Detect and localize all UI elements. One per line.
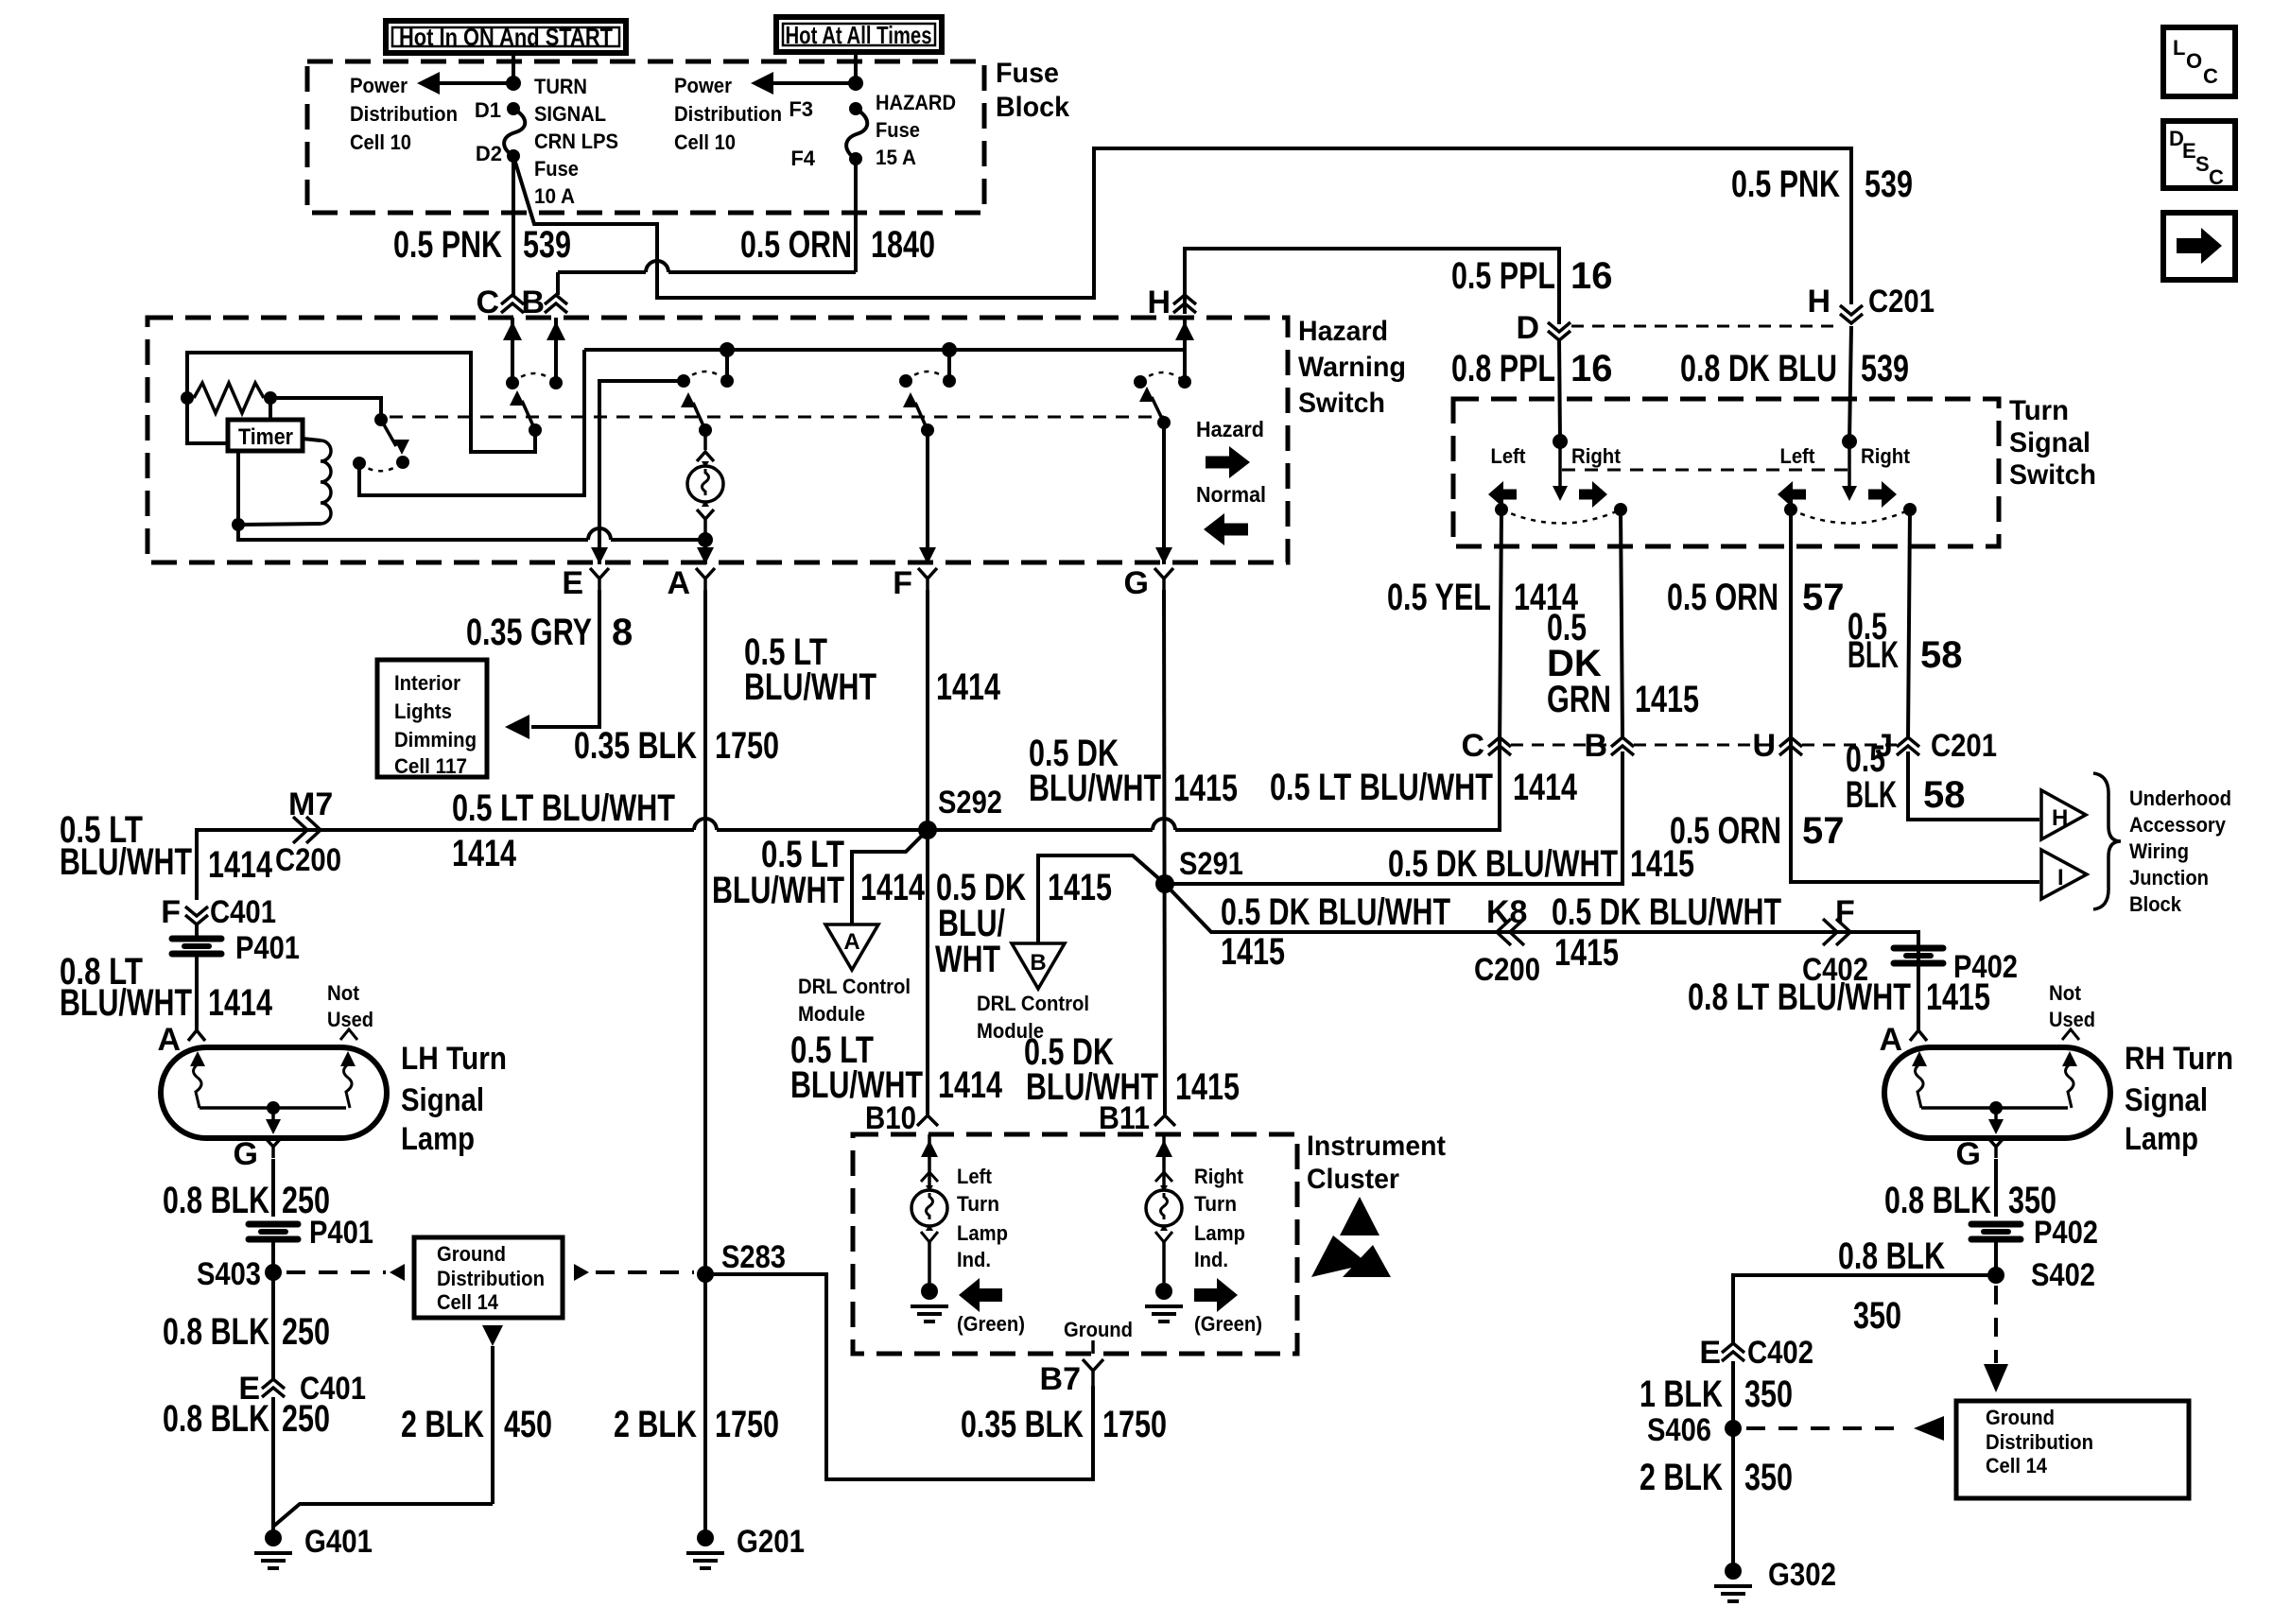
svg-text:WHT: WHT: [935, 939, 1000, 980]
wire: gang G right contact to connector H: [1175, 318, 1194, 382]
ground G302: [1714, 1557, 1836, 1601]
interior lights dimming cell 117 box: [377, 660, 487, 778]
svg-text:LH Turn: LH Turn: [401, 1041, 507, 1077]
svg-text:350: 350: [1744, 1457, 1793, 1498]
flasher switch: fixed contact: [374, 413, 388, 426]
wire: gang G pivot to connector G: [1155, 423, 1172, 564]
svg-text:DRL Control: DRL Control: [798, 975, 911, 998]
wire: ground distribution cell 14 to G401 (2 BLK 450): [274, 1325, 503, 1526]
label F3: [789, 97, 813, 121]
wire: resistor to timer top: [269, 398, 272, 420]
svg-text:Distribution: Distribution: [437, 1267, 545, 1290]
label 0.5 ORN 57 (upper): [1667, 577, 1845, 618]
pilot lamp socket (upper): [697, 430, 714, 461]
svg-text:C: C: [1461, 728, 1484, 764]
svg-text:Fuse: Fuse: [534, 157, 579, 181]
svg-text:1750: 1750: [715, 725, 779, 767]
fuse F: TURN SIGNAL CRN LPS Fuse 10 A: [504, 102, 525, 163]
mechanical linkage dashed line (hazard switch): [390, 416, 1164, 419]
label Power Distribution Cell 10 (left): [350, 74, 458, 154]
svg-text:A: A: [157, 1022, 181, 1058]
svg-text:I: I: [2057, 865, 2064, 890]
wire: gang F pivot to connector F: [919, 430, 936, 564]
svg-text:1415: 1415: [1173, 768, 1238, 809]
svg-text:G401: G401: [304, 1524, 373, 1560]
splice S283: [697, 1239, 786, 1283]
svg-text:F3: F3: [789, 97, 813, 121]
svg-text:Accessory: Accessory: [2129, 813, 2227, 837]
left turn lamp socket + ground: [911, 1232, 948, 1322]
label (Green) left: [957, 1312, 1025, 1336]
LH lamp right bulb terminal: [340, 1051, 356, 1108]
svg-text:1415: 1415: [1175, 1066, 1240, 1108]
node: fuse feed junction (left): [506, 76, 521, 91]
svg-text:0.5 PNK: 0.5 PNK: [393, 224, 502, 266]
hazard gang 0: pivot + arm: [510, 390, 542, 437]
svg-text:0.5 PPL: 0.5 PPL: [1451, 255, 1555, 297]
wire: connector B into hazard switch gang 0 right contact: [547, 318, 565, 383]
svg-text:350: 350: [1744, 1373, 1793, 1415]
svg-text:0.5 LT BLU/WHT: 0.5 LT BLU/WHT: [452, 787, 675, 829]
wire: flasher output to lamp junction, hops over E wire: [238, 525, 705, 540]
svg-text:Block: Block: [996, 92, 1069, 123]
svg-text:2 BLK: 2 BLK: [401, 1404, 484, 1445]
connector B (fuse block to hazard switch): [521, 285, 567, 320]
dashed reference: S406 to ground distribution cell 14: [1746, 1416, 1944, 1441]
svg-text:CRN LPS: CRN LPS: [534, 130, 618, 153]
wire: D to turn signal switch (0.8 PPL 16): [1559, 340, 1560, 441]
svg-text:C201: C201: [1931, 728, 1997, 764]
svg-text:1 BLK: 1 BLK: [1640, 1373, 1723, 1415]
label Fuse Block: [996, 58, 1069, 123]
wire: fuse D2 to connector C (0.5 PNK 539): [512, 156, 515, 295]
svg-text:BLU/WHT: BLU/WHT: [744, 666, 876, 708]
svg-text:B10: B10: [865, 1100, 916, 1136]
inline connector P402 (lower): [1971, 1215, 2098, 1251]
label 0.5 PNK 539 (right): [1731, 164, 1913, 205]
label 0.5 PPL 16: [1451, 255, 1613, 297]
svg-text:Turn: Turn: [957, 1192, 999, 1216]
wire: P401 to S403: [271, 1239, 275, 1272]
turn signal switch dashed box: [1453, 399, 1999, 546]
label 0.5 DK GRN 1415: [1547, 607, 1699, 720]
LH turn signal lamp body: [161, 1047, 387, 1138]
svg-text:H: H: [1807, 284, 1831, 320]
label HAZARD Fuse 15 A: [876, 91, 956, 169]
svg-text:Used: Used: [2049, 1008, 2095, 1031]
connector F C401: [161, 894, 276, 940]
wire: hazard switch common bus: [584, 348, 1186, 352]
wire: E C402 to S406 (1 BLK 350): [1731, 1361, 1735, 1428]
hazard gang 0: contacts + dashed arc: [506, 373, 563, 389]
label 0.5 BLK 58 (lower): [1846, 738, 1966, 816]
label 0.8 BLK 250 (1): [163, 1180, 330, 1221]
svg-text:Right: Right: [1194, 1165, 1244, 1188]
wire: connector A to S283 (0.35 BLK 1750): [703, 590, 707, 1274]
svg-text:Signal: Signal: [2125, 1082, 2208, 1118]
svg-text:Power: Power: [674, 74, 732, 97]
svg-text:Ground: Ground: [1986, 1406, 2055, 1429]
node: bus junction above gang A: [720, 342, 735, 381]
node: timer/coil bottom junction: [232, 518, 245, 531]
DRL control module B triangle: [1012, 943, 1065, 989]
svg-text:1840: 1840: [871, 224, 935, 266]
svg-text:0.8 BLK: 0.8 BLK: [163, 1398, 269, 1440]
svg-text:1414: 1414: [208, 844, 273, 886]
svg-text:K8: K8: [1486, 894, 1527, 930]
LH lamp left bulb terminal: [190, 1051, 205, 1108]
label 0.5 BLK 58 (upper): [1848, 606, 1963, 676]
svg-text:Cell 10: Cell 10: [350, 130, 411, 154]
hazard gang F: contacts + dashed arc: [899, 371, 956, 388]
hazard gang G: contacts + dashed arc: [1134, 372, 1191, 389]
svg-text:1750: 1750: [1102, 1404, 1167, 1445]
connector H (hazard switch top): [1147, 285, 1196, 320]
connector A (RH lamp): [1879, 1022, 1927, 1058]
svg-text:Signal: Signal: [401, 1082, 484, 1118]
node: lamp output junction: [698, 532, 713, 547]
left turn lamp indicator: [911, 1185, 947, 1231]
connector not used (RH lamp): [2062, 1029, 2079, 1040]
ground G401: [254, 1524, 373, 1568]
svg-text:B7: B7: [1040, 1361, 1081, 1397]
label 0.5 ORN 57 (lower): [1670, 810, 1845, 852]
label Hazard with right arrow: [1196, 417, 1264, 478]
label 0.8 LT BLU/WHT 1415: [1688, 976, 1990, 1018]
instrument cluster dashed box: [853, 1134, 1297, 1354]
svg-text:2 BLK: 2 BLK: [1640, 1457, 1723, 1498]
svg-text:Cluster: Cluster: [1307, 1164, 1399, 1195]
svg-text:B11: B11: [1099, 1100, 1150, 1136]
hazard pilot lamp: [687, 461, 723, 507]
svg-text:15 A: 15 A: [876, 146, 916, 169]
label B11: [1099, 1100, 1150, 1136]
label 0.8 BLK 350 (RH): [1884, 1180, 2056, 1221]
svg-text:Right: Right: [1571, 444, 1622, 468]
label 1 BLK 350: [1640, 1373, 1793, 1415]
wire: left vertical to timer: [187, 398, 228, 443]
label 0.5 YEL 1414: [1387, 577, 1579, 618]
label Right Turn Lamp Ind.: [1194, 1165, 1245, 1271]
svg-text:1414: 1414: [860, 867, 926, 908]
svg-text:D2: D2: [476, 142, 502, 165]
svg-text:B: B: [1030, 950, 1046, 976]
connector B C201: [1584, 728, 1634, 764]
svg-text:1415: 1415: [1048, 867, 1112, 908]
svg-text:Left: Left: [1491, 444, 1527, 468]
svg-text:Hot At All Times: Hot At All Times: [786, 21, 932, 49]
svg-text:F4: F4: [790, 147, 815, 170]
svg-text:S406: S406: [1647, 1412, 1711, 1448]
wire: S406 to G302 (2 BLK 350): [1731, 1428, 1735, 1566]
svg-text:57: 57: [1802, 810, 1845, 852]
svg-text:Fuse: Fuse: [876, 118, 920, 142]
wire: lamp junction to connector A: [697, 540, 714, 564]
connector C C201: [1461, 728, 1511, 764]
splice S292: [918, 785, 1002, 839]
coil (flasher relay): [238, 439, 331, 525]
dashed reference: S403 to ground distribution cell 14: [286, 1264, 405, 1281]
RH lamp left bulb terminal: [1912, 1051, 1927, 1108]
timer box: [228, 420, 303, 451]
svg-text:G: G: [1124, 565, 1149, 601]
label Left Turn Lamp Ind.: [957, 1165, 1008, 1271]
label 0.5 LT BLU/WHT 1414 (B10 wire): [790, 1029, 1003, 1106]
svg-text:S403: S403: [197, 1256, 261, 1292]
wire: connector G to S291 (0.5 DK BLU/WHT 1415): [1164, 590, 1165, 1114]
label Power Distribution Cell 10 (right): [674, 74, 782, 154]
svg-text:C: C: [476, 285, 499, 320]
svg-text:H: H: [2052, 805, 2068, 831]
svg-text:L: L: [2173, 36, 2185, 60]
wire: Hot At All Times feed to fuse F3: [854, 52, 858, 83]
wire: gang2 left contact to C201-U (0.5 ORN 57): [1789, 510, 1793, 752]
hazard gang A: pivot + arm: [681, 392, 712, 437]
label 2 BLK 450: [401, 1404, 552, 1445]
svg-text:Cell 117: Cell 117: [394, 754, 467, 778]
label 0.8 BLK 350 (horizontal): [1838, 1235, 1945, 1337]
wire: gang1 left contact to C201-C (0.5 YEL 1414): [1500, 510, 1501, 752]
right green arrow: [1194, 1278, 1238, 1312]
svg-text:S: S: [2195, 152, 2210, 176]
svg-text:E: E: [2182, 139, 2196, 163]
svg-text:10 A: 10 A: [534, 184, 575, 208]
label Underhood Accessory Wiring Junction Block: [2129, 786, 2231, 916]
wire: S403 to E C401 (0.8 BLK 250): [271, 1272, 275, 1379]
label D2: [476, 142, 502, 165]
label 0.5 LT BLU/WHT 1414 (DRL A wire): [712, 834, 926, 911]
label 0.8 DK BLU 539: [1680, 348, 1909, 389]
svg-text:C: C: [2203, 64, 2218, 88]
svg-text:C401: C401: [210, 894, 276, 930]
svg-text:S291: S291: [1179, 846, 1243, 882]
svg-text:Cell 10: Cell 10: [674, 130, 736, 154]
svg-text:P402: P402: [2034, 1215, 2098, 1251]
svg-text:C402: C402: [1747, 1335, 1813, 1371]
svg-text:0.5 DK BLU/WHT: 0.5 DK BLU/WHT: [1221, 891, 1450, 933]
legend box arrow: [2163, 213, 2235, 280]
svg-text:BLU/WHT: BLU/WHT: [60, 841, 192, 883]
svg-text:Not: Not: [2049, 981, 2082, 1005]
svg-text:BLU/WHT: BLU/WHT: [60, 982, 192, 1024]
node: bus junction above gang F: [942, 342, 957, 381]
wire: S292 to DRL control module A: [852, 830, 928, 924]
connector G (LH lamp): [234, 1136, 283, 1172]
svg-text:S283: S283: [721, 1239, 786, 1275]
svg-text:1414: 1414: [452, 833, 517, 874]
label Not Used (RH): [2049, 981, 2095, 1031]
svg-text:0.5 YEL: 0.5 YEL: [1387, 577, 1491, 618]
svg-text:0.5 LT BLU/WHT: 0.5 LT BLU/WHT: [1270, 767, 1493, 808]
svg-text:Power: Power: [350, 74, 408, 97]
svg-text:Signal: Signal: [2009, 427, 2091, 458]
label 0.5 DK BLU/WHT 1415 (B11 wire): [1024, 1031, 1240, 1108]
svg-text:2 BLK: 2 BLK: [614, 1404, 697, 1445]
label 0.8 PPL 16: [1451, 348, 1613, 389]
hazard gang G: pivot + arm: [1139, 387, 1171, 429]
svg-text:Distribution: Distribution: [1986, 1430, 2093, 1454]
svg-text:G201: G201: [737, 1524, 805, 1560]
splice S402: [1987, 1257, 2095, 1293]
svg-text:539: 539: [1865, 164, 1913, 205]
label 0.35 BLK 1750 (B7): [961, 1404, 1167, 1445]
hazard gang F: pivot + arm: [903, 392, 934, 437]
label 0.5 DK BLU/WHT 1415 (to C201 B): [1388, 843, 1694, 885]
svg-text:57: 57: [1802, 577, 1845, 618]
connector A (hazard switch bottom): [667, 565, 715, 601]
svg-text:P401: P401: [309, 1215, 373, 1251]
wire: B11 into cluster right turn lamp: [1155, 1134, 1172, 1190]
svg-text:D1: D1: [475, 98, 501, 122]
svg-text:0.8 DK BLU: 0.8 DK BLU: [1680, 348, 1837, 389]
ESD symbol: [1311, 1197, 1391, 1277]
label 2 BLK 350: [1640, 1457, 1793, 1498]
label 0.5 LT BLU/WHT 1414 (bus left): [60, 809, 273, 886]
label (Green) right: [1194, 1312, 1262, 1336]
connector K8 C200 (inline <<): [1474, 894, 1540, 988]
label D1: [475, 98, 501, 122]
svg-text:Lights: Lights: [394, 700, 452, 723]
svg-text:TURN: TURN: [534, 75, 587, 98]
connector F C402 (inline >>): [1802, 894, 1868, 988]
svg-text:GRN: GRN: [1547, 679, 1611, 720]
svg-text:1414: 1414: [936, 666, 1001, 708]
svg-text:0.5 PNK: 0.5 PNK: [1731, 164, 1840, 205]
svg-text:0.35 GRY: 0.35 GRY: [466, 612, 592, 653]
RH turn signal lamp body: [1884, 1047, 2110, 1138]
svg-text:A: A: [843, 929, 859, 955]
svg-text:S292: S292: [938, 785, 1002, 821]
wire: cluster ground to B7: [1091, 1340, 1095, 1354]
svg-text:E: E: [1699, 1335, 1721, 1371]
svg-text:350: 350: [1853, 1295, 1901, 1337]
wire: S402 to E C402 (0.8 BLK 350): [1733, 1275, 1996, 1343]
svg-text:250: 250: [282, 1398, 330, 1440]
svg-text:Interior: Interior: [394, 671, 460, 695]
label Normal with left arrow: [1196, 482, 1266, 545]
RH lamp right bulb terminal: [2062, 1051, 2077, 1108]
svg-text:0.8 PPL: 0.8 PPL: [1451, 348, 1555, 389]
flasher switch: moving contacts + dashed arc: [353, 456, 409, 471]
inline connector P401 (upper): [172, 930, 300, 966]
label Turn Signal Switch: [2009, 395, 2096, 491]
svg-text:0.8 BLK: 0.8 BLK: [163, 1180, 269, 1221]
label 0.5 LT BLU/WHT 1414 (bus right): [1270, 767, 1578, 808]
label 0.5 DK BLU/WHT 1415 (DRL B wire): [935, 867, 1112, 980]
svg-text:BLU/WHT: BLU/WHT: [1029, 768, 1161, 809]
hazard gang A: contacts + dashed arc: [677, 371, 734, 388]
wire: connector E to interior lights dimming (0.35 GRY 8): [505, 590, 599, 739]
svg-text:0.8 BLK: 0.8 BLK: [1838, 1235, 1945, 1277]
svg-text:G: G: [234, 1136, 258, 1172]
mechanical linkage dashed (turn signal switch): [1562, 469, 1848, 472]
wire: LH lamp G to P401 (0.8 BLK 250): [271, 1159, 275, 1217]
svg-text:Instrument: Instrument: [1307, 1131, 1446, 1162]
svg-text:Distribution: Distribution: [674, 102, 782, 126]
svg-text:Dimming: Dimming: [394, 728, 477, 752]
svg-text:Timer: Timer: [238, 424, 293, 450]
label 0.8 BLK 250 (2): [163, 1311, 330, 1353]
svg-text:Used: Used: [327, 1008, 373, 1031]
svg-text:M7: M7: [288, 786, 333, 822]
wire: S291 to DRL control module B: [1038, 855, 1165, 943]
svg-text:(Green): (Green): [957, 1312, 1025, 1336]
wire: S292 to B10 (0.5 LT BLU/WHT 1414): [926, 830, 929, 1114]
label 0.5 PNK 539 (left): [393, 224, 571, 266]
right turn lamp socket + ground: [1145, 1232, 1183, 1322]
svg-text:Junction: Junction: [2129, 866, 2209, 890]
svg-text:1415: 1415: [1554, 932, 1619, 974]
svg-text:Block: Block: [2129, 892, 2182, 916]
legend box DESC: [2163, 121, 2235, 189]
svg-text:1415: 1415: [1635, 679, 1699, 720]
svg-text:1414: 1414: [938, 1064, 1003, 1106]
svg-text:BLK: BLK: [1846, 774, 1897, 816]
fuse block dashed box: [307, 61, 984, 213]
svg-text:Module: Module: [798, 1002, 865, 1026]
svg-text:250: 250: [282, 1311, 330, 1353]
splice S291: [1155, 846, 1243, 893]
wire: S291 to P402 via K8 C200 and F C402 (0.5 DK BLU/WHT 1415): [1165, 884, 1918, 1030]
connector M7 C200 (inline >>): [275, 786, 341, 878]
fuse F: HAZARD Fuse 15 A: [846, 102, 867, 165]
svg-text:58: 58: [1920, 634, 1963, 676]
wire: gang1 right contact to C201-B (0.5 DK GRN 1415): [1621, 510, 1622, 737]
label 0.5 ORN 1840: [740, 224, 935, 266]
svg-text:Normal: Normal: [1196, 482, 1266, 507]
svg-text:Ind.: Ind.: [1194, 1248, 1228, 1271]
svg-text:P401: P401: [235, 930, 300, 966]
wire: connector C into hazard switch gang 0 left contact: [503, 318, 522, 383]
svg-text:G: G: [1956, 1136, 1981, 1172]
svg-text:58: 58: [1923, 774, 1966, 816]
wire+arrow: Power Distribution Cell 10 (left): [417, 72, 513, 95]
connector not used (LH lamp): [340, 1029, 357, 1040]
svg-text:Ground: Ground: [1064, 1318, 1133, 1341]
svg-text:Fuse: Fuse: [996, 58, 1059, 89]
svg-text:Switch: Switch: [2009, 459, 2096, 491]
svg-text:Not: Not: [327, 981, 360, 1005]
svg-text:F: F: [161, 894, 181, 930]
svg-text:S402: S402: [2031, 1257, 2095, 1293]
svg-text:E: E: [562, 565, 583, 601]
label F4: [790, 147, 815, 170]
svg-text:0.5 ORN: 0.5 ORN: [1667, 577, 1778, 618]
svg-text:Cell 14: Cell 14: [437, 1290, 499, 1314]
svg-text:0.35 BLK: 0.35 BLK: [574, 725, 697, 767]
wire: gang2 right contact to C201-J (0.5 BLK 58): [1908, 510, 1910, 737]
label DRL Control Module (A): [798, 975, 911, 1026]
turn signal gang 2: arrows: [1778, 481, 1897, 508]
turn signal gang 1: contacts + dashed arc: [1495, 503, 1627, 524]
ground G201: [686, 1524, 805, 1568]
wire: flasher left contact to switch bus: [359, 350, 584, 495]
wire: flasher top bus: [187, 353, 535, 452]
svg-text:Left: Left: [957, 1165, 993, 1188]
wire: S291 to C201-B (0.5 DK BLU/WHT 1415): [1165, 752, 1622, 884]
label 0.35 BLK 1750: [574, 725, 779, 767]
right turn lamp indicator: [1146, 1185, 1182, 1231]
brace underhood junction block: [2093, 773, 2121, 909]
connector D: [1516, 310, 1570, 346]
svg-text:Lamp: Lamp: [2125, 1121, 2198, 1157]
header box: Hot In ON And START: [386, 21, 626, 53]
svg-text:0.35 BLK: 0.35 BLK: [961, 1404, 1084, 1445]
wire: H C201 to turn signal switch (0.8 DK BLU 539): [1849, 326, 1851, 441]
wire: P402 to S402: [1994, 1239, 1998, 1275]
svg-text:F: F: [1835, 894, 1855, 930]
label 0.35 GRY 8: [466, 612, 633, 653]
